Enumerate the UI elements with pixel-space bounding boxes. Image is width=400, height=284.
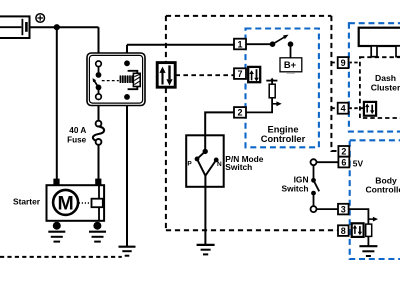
IGN switch bottom terminal bbox=[311, 206, 317, 212]
internal switch node left bbox=[270, 41, 276, 47]
battery plate short bbox=[25, 22, 28, 32]
P/N mode switch label bbox=[225, 154, 263, 172]
relay switch wire segment bbox=[98, 67, 100, 72]
CAN transceiver big box on boundary bbox=[157, 63, 175, 88]
svg-text:5V: 5V bbox=[353, 158, 364, 168]
relay switch top terminal bbox=[96, 61, 102, 67]
CAN transceiver small (body pin 8) bbox=[352, 223, 364, 237]
pull-up resistor R1 bbox=[269, 84, 275, 98]
IGN switch wire segment bottom bbox=[313, 193, 315, 206]
IGN switch top terminal bbox=[311, 159, 317, 165]
wire resistor to internal ground bbox=[367, 236, 369, 246]
engine controller label bbox=[261, 125, 306, 145]
relay coil node top bbox=[124, 60, 130, 66]
relay armature bracket bbox=[128, 71, 138, 89]
svg-text:Controller: Controller bbox=[261, 134, 306, 144]
dash cluster box (blue dashed) bbox=[349, 23, 400, 131]
B+ supply box bbox=[280, 58, 302, 73]
body controller pin 2 bbox=[338, 146, 349, 157]
wire pin 2 to P/N switch bbox=[205, 112, 234, 151]
svg-text:Switch: Switch bbox=[225, 162, 252, 172]
relay switch arm bbox=[94, 80, 99, 87]
ground P/N switch bbox=[197, 245, 215, 255]
P/N contact N bbox=[214, 158, 219, 163]
IGN switch node bottom bbox=[311, 191, 316, 196]
body controller label bbox=[365, 176, 400, 195]
starter M1 terminal left bbox=[53, 179, 59, 186]
wire relay coil vertical down to ground bbox=[126, 45, 128, 247]
vehicle boundary dashed bottom to body pin 8 bbox=[166, 229, 338, 231]
relay switch arm arrowhead bbox=[93, 78, 97, 82]
engine controller pin 7 bbox=[234, 68, 246, 79]
fuse F1 top terminal bbox=[96, 121, 102, 127]
P/N switch common node bbox=[203, 149, 208, 154]
engine controller box U1 (blue dashed) bbox=[246, 29, 319, 148]
chassis dashed line bottom-left bbox=[0, 256, 122, 258]
P/N contact V wires bbox=[197, 159, 216, 176]
relay switch contact node bottom bbox=[96, 85, 102, 91]
svg-text:Controller: Controller bbox=[365, 185, 400, 195]
CAN transceiver big down arrow bbox=[166, 65, 172, 85]
vehicle boundary dashed box top bbox=[166, 15, 332, 17]
fuse label bbox=[67, 126, 87, 144]
svg-text:1: 1 bbox=[237, 39, 242, 49]
data line to engine controller pin 7 bbox=[175, 74, 234, 76]
battery B1 case bbox=[0, 16, 30, 38]
engine controller pin 1 bbox=[234, 39, 246, 50]
dash cluster display leg left bbox=[371, 46, 377, 57]
wire switch to B+ bbox=[290, 44, 292, 58]
IGN switch wire segment bbox=[313, 165, 315, 180]
P/N wire into box bbox=[204, 135, 206, 151]
wire fuse to starter terminal bbox=[98, 145, 100, 181]
svg-text:Fuse: Fuse bbox=[67, 136, 87, 145]
starter M1 terminal right bbox=[95, 179, 101, 186]
node junction battery/starter bbox=[54, 24, 60, 30]
starter motor circle bbox=[53, 190, 78, 215]
svg-text:P: P bbox=[187, 160, 192, 167]
body pull-down resistor R2 bbox=[366, 224, 372, 236]
svg-text:N: N bbox=[217, 161, 222, 168]
dash cluster pin 4 bbox=[338, 103, 349, 114]
internal sense arrow bbox=[272, 101, 282, 106]
starter solenoid bar bbox=[98, 185, 100, 221]
CAN transceiver big up arrow bbox=[159, 67, 165, 85]
IGN switch node top bbox=[311, 178, 316, 183]
relay switch bottom terminal bbox=[96, 94, 102, 100]
vehicle boundary dashed box right edge to body pin 2 bbox=[331, 16, 338, 151]
fuse F1 element bbox=[93, 126, 104, 141]
pull-up rail T-bar bbox=[266, 78, 277, 85]
relay K1 inner box bbox=[89, 55, 142, 103]
battery plate long bbox=[21, 19, 23, 35]
svg-text:3: 3 bbox=[341, 204, 346, 214]
body controller pin 3 bbox=[338, 204, 349, 215]
wire battery to relay switch bbox=[30, 26, 99, 28]
svg-text:40 A: 40 A bbox=[69, 126, 86, 135]
svg-text:7: 7 bbox=[237, 69, 242, 79]
svg-text:B+: B+ bbox=[284, 59, 297, 70]
engine controller pin 2 bbox=[234, 107, 246, 118]
CAN transceiver small (dash pin 4) bbox=[364, 102, 376, 116]
svg-text:4: 4 bbox=[341, 103, 346, 113]
wire P/N switch to ground bbox=[204, 176, 206, 245]
dash cluster display bbox=[359, 28, 400, 46]
battery lead bbox=[0, 26, 21, 28]
data line stub dash cluster pin 4 to transceiver (right) bbox=[349, 107, 364, 109]
wire resistor to pin 2 bbox=[246, 98, 272, 113]
data line stub to dash cluster pin 4 (left) bbox=[331, 107, 337, 109]
dash cluster pin 9 bbox=[338, 57, 349, 68]
IGN switch label bbox=[282, 175, 309, 194]
P/N mode switch box bbox=[186, 135, 224, 187]
relay switch contact node top bbox=[96, 72, 102, 78]
IGN switch arm bbox=[314, 180, 320, 191]
ground starter right bbox=[89, 222, 106, 242]
internal switch node right bbox=[288, 41, 294, 47]
starter M1 box bbox=[47, 185, 105, 221]
relay K1 outer box bbox=[87, 53, 145, 106]
body controller pin 6 bbox=[338, 157, 349, 168]
wire pin 1 to internal switch bbox=[246, 43, 273, 45]
body controller pin 8 bbox=[338, 225, 349, 236]
relay mechanical link dashed bbox=[102, 80, 119, 82]
wire relay coil to engine controller pin 1 bbox=[127, 44, 234, 46]
wire relay switch to fuse bbox=[98, 99, 100, 120]
vehicle boundary dashed box left edge bbox=[165, 16, 167, 230]
relay switch wire segment bottom bbox=[98, 90, 100, 94]
wire junction down to starter terminal bbox=[56, 27, 58, 180]
svg-text:2: 2 bbox=[341, 147, 346, 157]
body controller box (blue dashed) bbox=[350, 140, 400, 259]
svg-text:Starter: Starter bbox=[13, 196, 41, 206]
svg-text:M: M bbox=[57, 193, 73, 215]
dash cluster module inner dashed box bbox=[360, 57, 400, 118]
svg-text:Switch: Switch bbox=[282, 184, 309, 194]
battery plus terminal symbol bbox=[36, 14, 45, 23]
relay coil winding bbox=[119, 75, 132, 83]
relay return spring bbox=[133, 73, 140, 86]
svg-text:2: 2 bbox=[237, 108, 242, 118]
dash cluster label bbox=[371, 73, 400, 92]
internal switch arm arrowhead bbox=[283, 35, 289, 40]
wire IGN to body pin 6 bbox=[317, 161, 339, 163]
svg-text:8: 8 bbox=[341, 226, 346, 236]
svg-text:6: 6 bbox=[341, 157, 346, 167]
svg-text:Engine: Engine bbox=[268, 125, 299, 135]
body sense arrow bbox=[368, 217, 378, 222]
wire IGN to body pin 3 bbox=[317, 208, 339, 210]
data line stub dash cluster pin 9 to module (right) bbox=[349, 62, 360, 64]
wire pin 3 to resistor bbox=[349, 209, 369, 224]
P/N contact P bbox=[195, 157, 200, 162]
internal switch arm bbox=[273, 36, 286, 44]
CAN transceiver small (engine pin 7) bbox=[248, 67, 260, 82]
fuse F1 bottom terminal bbox=[96, 139, 102, 145]
svg-text:9: 9 bbox=[341, 58, 346, 68]
starter mech link dotted bbox=[79, 202, 92, 204]
wire battery wire down into relay switch bbox=[98, 27, 100, 61]
data line stub to dash cluster pin 9 (left) bbox=[331, 62, 337, 64]
ground body controller bbox=[359, 246, 377, 256]
relay coil node bottom bbox=[124, 94, 130, 100]
dash cluster display leg right bbox=[396, 46, 400, 57]
svg-text:Cluster: Cluster bbox=[371, 82, 400, 92]
ground relay coil bbox=[119, 247, 136, 256]
P/N switch arm bbox=[197, 151, 205, 159]
starter solenoid contact bbox=[92, 199, 103, 208]
ground starter left bbox=[48, 222, 65, 242]
